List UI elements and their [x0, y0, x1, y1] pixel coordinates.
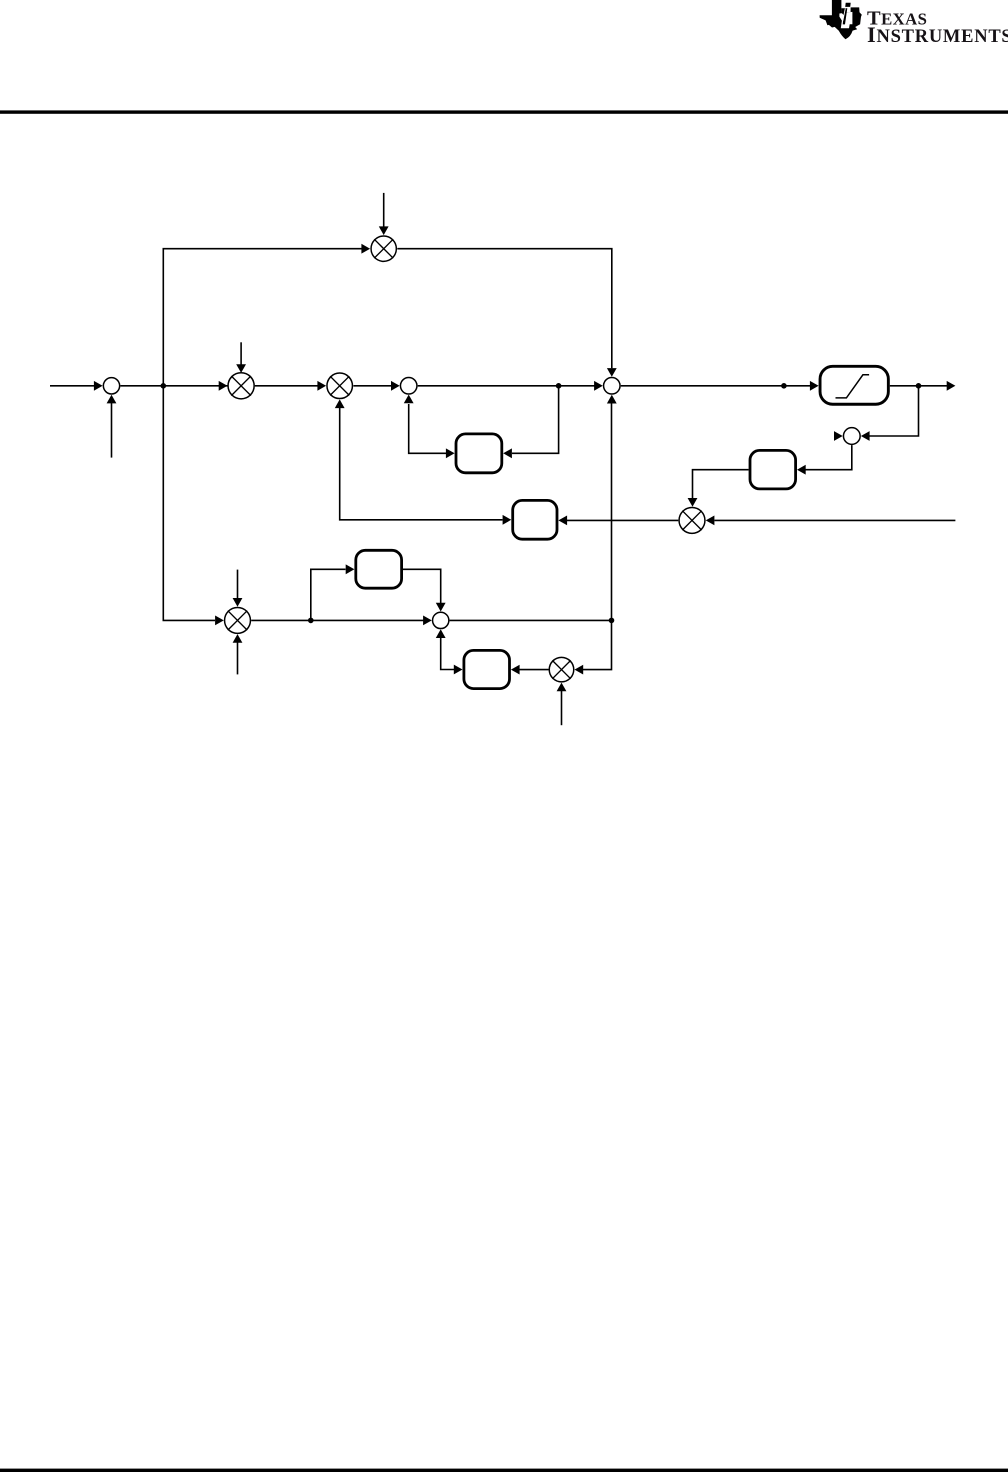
wire: M4 top input stub — [237, 570, 239, 599]
wire: J2 down into block B1 right — [512, 386, 559, 454]
block B3 — [464, 650, 510, 688]
wire: M4 bottom input stub — [237, 643, 239, 675]
arrow stub into S4 left — [834, 431, 843, 441]
top horizontal rule — [0, 110, 1008, 113]
wire: M6 output into block B3 right — [520, 669, 549, 671]
block B5 — [513, 500, 557, 539]
wire: M2 to M3 — [255, 385, 318, 387]
summing junction S3 — [604, 378, 621, 395]
wire: M3 bottom path to block B5 — [340, 406, 503, 520]
wire: S3 to saturation block through node J4 — [621, 385, 810, 387]
multiplier M1 — [371, 236, 396, 261]
wire: S4 down into block B2 — [806, 445, 852, 470]
multiplier M6 — [549, 657, 574, 682]
node J5 — [916, 383, 922, 389]
wire: S1 bottom input stub — [111, 403, 113, 458]
multiplier M3 — [327, 373, 353, 399]
wire: M4 to summing junction S5 through node J6 — [251, 619, 423, 621]
multiplier M4 — [225, 607, 251, 633]
wire: M3 to summing junction S2 — [353, 385, 391, 387]
node J3 — [609, 618, 615, 624]
wire: S2 to S3 through node J2 — [418, 385, 595, 387]
wire: J6 up into block B4 — [311, 569, 346, 620]
wire: M1 output to summing junction S3 top — [397, 249, 612, 369]
wire: S1 to multiplier M2 through node J1 — [120, 385, 228, 387]
wire: S2 bottom path to block B1 left — [409, 404, 446, 453]
wire: B3 output up into S5 bottom — [441, 638, 455, 670]
wire: M5 output into block B5 right — [567, 519, 678, 521]
wire: B2 output into multiplier M5 top — [693, 470, 749, 499]
summing junction S2 — [400, 378, 417, 395]
summing junction S4 — [843, 428, 860, 445]
wire: M2 top input stub — [240, 342, 242, 364]
saturation block U1 — [820, 366, 888, 404]
wire: S3 bottom input from lower trunk — [611, 404, 613, 621]
multiplier M2 — [228, 373, 254, 399]
node J6 — [308, 618, 314, 624]
summing junction S5 — [433, 612, 449, 628]
wire: J3 down into multiplier M6 — [583, 620, 612, 669]
TI Texas-map logo — [820, 0, 862, 39]
wire: S5 to node J3 — [450, 619, 612, 621]
wire: right-side input into M5 — [715, 519, 956, 521]
saturation curve glyph — [836, 375, 870, 398]
wire: left feed trunk (top row, left vertical, lower row) — [163, 249, 361, 621]
node J4 — [781, 383, 787, 389]
block B4 — [356, 550, 402, 588]
node J2 — [556, 383, 562, 389]
multiplier M5 — [679, 507, 705, 533]
block B2 — [750, 450, 796, 489]
bottom horizontal rule — [0, 1469, 1008, 1472]
summing junction S1 — [103, 378, 119, 394]
node J1 — [161, 383, 167, 389]
wire: M6 bottom input stub — [561, 691, 563, 725]
block B1 — [456, 434, 502, 473]
wire: input line into summing junction S1 — [50, 385, 94, 387]
wire: B4 output into S5 top — [403, 569, 441, 603]
wire: saturation block output through node J5 — [890, 385, 947, 387]
wire: M1 top input stub — [383, 193, 385, 227]
wire: J5 down into summing junction S4 — [870, 386, 919, 436]
